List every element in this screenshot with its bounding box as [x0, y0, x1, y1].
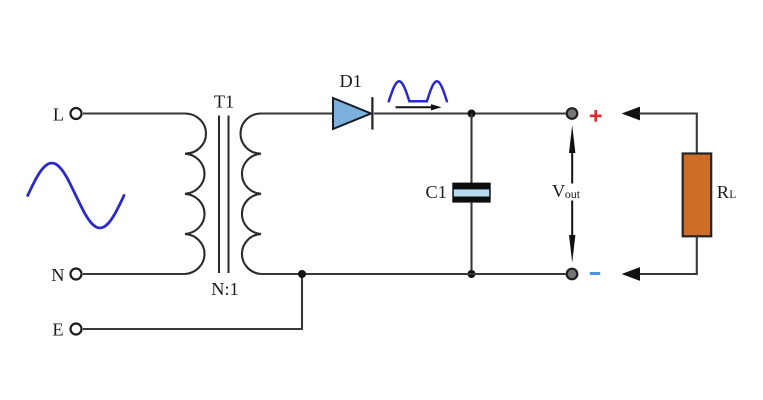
- svg-text:L: L: [729, 189, 736, 201]
- capacitor C1: [426, 182, 491, 202]
- terminal N: [51, 265, 81, 285]
- junction node at capacitor top: [468, 110, 476, 118]
- svg-text:E: E: [52, 320, 63, 340]
- output terminal -: [567, 269, 578, 280]
- wire load bottom: [639, 236, 697, 274]
- transformer T1 primary winding: [185, 114, 206, 275]
- svg-text:V: V: [552, 181, 565, 201]
- label Vout: [552, 181, 581, 201]
- wire L to transformer primary: [83, 112, 185, 114]
- bottom rail wire: [261, 273, 566, 275]
- label -: [590, 272, 600, 275]
- rectified waveform icon: [389, 81, 447, 101]
- arrow into + terminal: [622, 107, 640, 121]
- arrow into - terminal: [622, 267, 640, 281]
- transformer T1 secondary winding: [240, 114, 261, 275]
- svg-text:D1: D1: [340, 71, 362, 91]
- Vout measurement arrow: [569, 125, 575, 263]
- svg-text:N:1: N:1: [211, 279, 238, 299]
- wire N to transformer primary: [83, 273, 185, 275]
- label +: [590, 110, 602, 122]
- svg-text:out: out: [565, 187, 581, 201]
- wire junction to capacitor: [470, 114, 472, 184]
- junction node at capacitor bottom: [468, 270, 476, 278]
- terminal L: [53, 105, 82, 125]
- svg-text:N: N: [51, 265, 64, 285]
- wire secondary top to diode: [261, 112, 333, 114]
- wire load top: [639, 114, 697, 154]
- AC sine waveform: [28, 163, 124, 228]
- output terminal +: [567, 108, 578, 119]
- svg-text:R: R: [717, 182, 730, 202]
- svg-text:C1: C1: [426, 182, 447, 202]
- svg-text:T1: T1: [214, 92, 234, 112]
- svg-text:L: L: [53, 105, 64, 125]
- wire capacitor to bottom rail: [470, 203, 472, 274]
- wire E to secondary bottom junction: [83, 274, 302, 329]
- resistor RL: [683, 154, 737, 237]
- diode D1: [333, 71, 372, 130]
- transformer T1 core: [219, 116, 229, 274]
- current direction arrow: [396, 104, 442, 110]
- terminal E: [52, 320, 81, 340]
- wire diode cathode to + terminal: [374, 112, 566, 114]
- junction node at earth connection: [298, 270, 306, 278]
